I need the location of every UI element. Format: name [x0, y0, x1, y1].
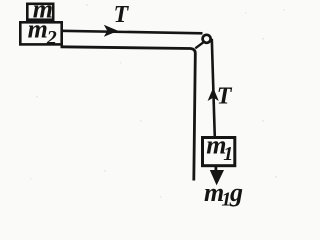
svg-text:T: T: [217, 83, 233, 109]
box m2: [20, 22, 61, 44]
svg-text:1: 1: [223, 143, 233, 165]
arrow T up: [208, 88, 219, 101]
svg-text:T: T: [114, 2, 130, 28]
box m: [27, 4, 53, 20]
svg-text:2: 2: [46, 27, 57, 49]
pulley mount diagonal: [195, 42, 203, 48]
svg-text:m: m: [28, 15, 48, 44]
faint scan speckles (decorative): [30, 4, 285, 198]
table surface and edge: [61, 47, 196, 181]
arrow T right: [104, 25, 119, 37]
box m1: [203, 138, 235, 166]
arrow m1g: [214, 166, 217, 173]
svg-text:g: g: [229, 178, 243, 207]
wire: vertical string to m1: [212, 39, 215, 138]
wire: horizontal string to pulley: [61, 31, 203, 34]
pulley: [203, 35, 211, 43]
